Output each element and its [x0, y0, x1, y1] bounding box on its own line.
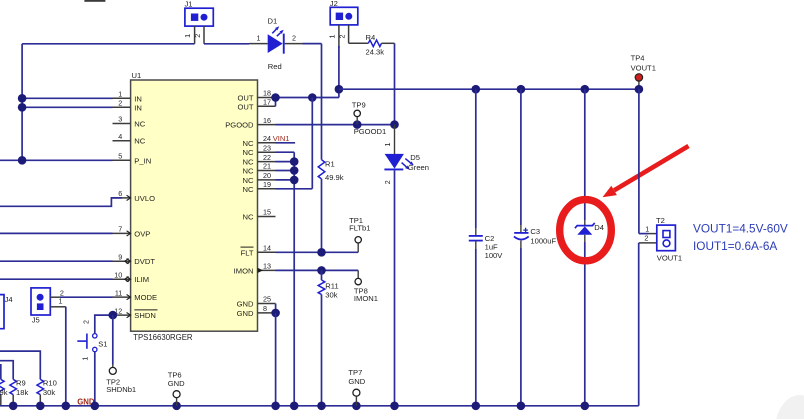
diode D4 TVS: [575, 220, 604, 242]
wire NC pin 20: [276, 179, 295, 181]
node rail TP6: [172, 402, 181, 411]
resistor R9 18k: [10, 379, 29, 397]
node rail NC bus: [290, 402, 299, 411]
wire NC pin 21: [276, 170, 295, 172]
wire pin 19 horizontal: [276, 188, 313, 190]
svg-text:8: 8: [263, 304, 267, 313]
U1 pin 4 NC: [113, 132, 146, 146]
svg-text:15: 15: [263, 208, 271, 217]
node rail S1: [91, 402, 100, 411]
wire P_IN from left edge: [0, 159, 113, 161]
wire OUT to jog: [276, 97, 339, 99]
U1 pin 12 SHDN: [113, 306, 158, 320]
svg-text:NC: NC: [134, 120, 145, 129]
switch S1: [77, 320, 107, 361]
svg-text:PGOOD: PGOOD: [225, 121, 254, 130]
wire to R9: [0, 361, 13, 380]
svg-text:TP9: TP9: [352, 101, 366, 110]
wire C2 bottom lead: [475, 249, 477, 406]
wire C3 bottom lead: [520, 248, 522, 406]
svg-text:9k: 9k: [0, 388, 8, 397]
svg-text:IOUT1=0.6A-6A: IOUT1=0.6A-6A: [693, 239, 777, 253]
svg-text:OVP: OVP: [134, 229, 150, 238]
svg-text:DVDT: DVDT: [134, 257, 155, 266]
wire NC pin 23 to bus: [276, 151, 295, 153]
wire R4 to D5 column: [382, 42, 395, 44]
svg-text:NC: NC: [134, 137, 145, 146]
wire VIN top to J1 pin 1: [22, 43, 195, 45]
test point TP4 VOUT1: [631, 53, 656, 89]
svg-text:2: 2: [193, 34, 202, 38]
svg-text:4: 4: [118, 132, 122, 141]
wire OVP from left edge: [0, 232, 113, 234]
svg-text:P_IN: P_IN: [134, 156, 151, 165]
svg-text:VIN1: VIN1: [273, 134, 290, 143]
wire TP2 riser: [112, 315, 114, 364]
wire C2 top lead: [475, 89, 477, 228]
resistor R10 30k: [37, 379, 57, 397]
svg-text:13: 13: [263, 262, 271, 271]
svg-text:J5: J5: [32, 316, 40, 325]
U1 pin 18 OUT: [237, 89, 275, 103]
U1 pin 1 IN: [113, 90, 142, 104]
svg-text:ILIM: ILIM: [134, 275, 149, 284]
wire R11 top lead: [321, 270, 323, 280]
U1 pin 3 NC: [113, 115, 146, 129]
wire UVLO from left edge: [0, 198, 122, 206]
node rail GND pins: [271, 402, 280, 411]
test point TP7 GND: [348, 368, 365, 406]
wire IN pin 1: [22, 97, 112, 99]
connector J5: [31, 288, 50, 325]
resistor R11 30k: [318, 280, 338, 299]
U1 pin 24 NC: [243, 134, 276, 148]
svg-text:MODE: MODE: [134, 293, 157, 302]
svg-text:GND: GND: [168, 379, 185, 388]
wire D5 cathode to GND rail: [394, 170, 396, 405]
wire NC bus vertical to GND rail: [293, 152, 295, 406]
annotation red arrow: [603, 146, 689, 197]
U1 pin 6 UVLO: [113, 189, 156, 203]
svg-text:1000uF: 1000uF: [530, 236, 556, 245]
node VOUT/C3: [517, 85, 526, 94]
node NC bus pin20: [290, 176, 299, 185]
svg-text:2: 2: [82, 320, 91, 324]
node VIN/IN2 junction: [18, 103, 27, 112]
svg-text:23: 23: [263, 143, 271, 152]
svg-text:TP4: TP4: [631, 53, 645, 62]
node SHDN/TP2: [109, 311, 118, 320]
svg-text:NC: NC: [243, 176, 254, 185]
wire PGOOD net: [276, 124, 395, 126]
node FLT/R1: [317, 248, 326, 257]
svg-text:R9: R9: [16, 379, 26, 388]
svg-text:NC: NC: [243, 185, 254, 194]
svg-text:1: 1: [59, 296, 63, 305]
wire C3 top lead: [520, 89, 522, 225]
svg-text:17: 17: [263, 98, 271, 107]
svg-text:1: 1: [183, 34, 192, 38]
svg-text:OUT: OUT: [237, 102, 253, 111]
U1 pin 8 GND: [237, 304, 276, 318]
U1 pin 10 ILIM: [113, 270, 150, 284]
LED D1 Red: [268, 16, 285, 71]
test point TP2 SHDNb1: [106, 365, 136, 395]
wire D1 cathode down to R1: [321, 44, 323, 160]
wire IN pin 2: [22, 106, 112, 108]
node rail R11: [317, 402, 326, 411]
svg-text:C3: C3: [530, 227, 540, 236]
svg-text:GND: GND: [348, 377, 365, 386]
wire VIN trunk vertical: [21, 44, 23, 161]
wire GND pin 25: [275, 304, 277, 313]
svg-text:D4: D4: [594, 223, 604, 232]
resistor R1 49.9k: [318, 160, 344, 182]
node NC bus pin22: [290, 157, 299, 166]
wire J1.2 to D1 anode: [204, 43, 249, 45]
IC U1 TPS16630RGER: [131, 71, 258, 342]
wire D5 column top: [394, 43, 396, 124]
T2 pin 1 stub: [645, 224, 657, 233]
svg-text:Green: Green: [408, 163, 429, 172]
U1 pin 17 OUT: [237, 98, 275, 112]
J2 pin 2 lead: [338, 25, 349, 43]
svg-text:24: 24: [263, 134, 271, 143]
net VIN1 on pin 24: [273, 134, 295, 143]
node rail R10: [36, 402, 45, 411]
svg-text:1: 1: [257, 34, 261, 43]
svg-text:2: 2: [644, 234, 648, 243]
wire J5 pin 1 down to GND rail: [65, 307, 67, 406]
svg-text:1: 1: [383, 143, 392, 147]
wire OUT drop to pin 19: [311, 98, 313, 189]
svg-text:16: 16: [263, 116, 271, 125]
svg-text:OUT: OUT: [237, 94, 253, 103]
T2 pin 2 stub: [639, 234, 657, 243]
wire D4 top lead: [584, 89, 586, 220]
test point TP6 GND: [168, 371, 185, 406]
node VIN/P_IN junction: [18, 156, 27, 165]
connector J1: [185, 0, 214, 26]
J5 pin 1 wire: [50, 296, 66, 306]
node VIN/IN1 junction: [18, 94, 27, 103]
svg-text:FLTb1: FLTb1: [349, 224, 370, 233]
svg-text:1: 1: [81, 357, 90, 361]
svg-text:GND: GND: [237, 300, 254, 309]
J5 pin 2 wire to MODE: [50, 288, 112, 297]
test point TP1 FLTb1: [349, 216, 370, 252]
wire R1 bottom to FLT net: [321, 179, 323, 252]
svg-text:18: 18: [263, 89, 271, 98]
J1 pin 1 lead: [183, 26, 194, 44]
U1 pin 25 GND: [237, 295, 276, 309]
svg-text:3: 3: [118, 115, 122, 124]
wire NC pin 22: [276, 161, 295, 163]
U1 pin 15 NC: [243, 208, 276, 222]
svg-text:D5: D5: [410, 153, 420, 162]
svg-text:30k: 30k: [325, 290, 337, 299]
wire J2.1 down to VOUT node: [338, 46, 340, 89]
node OUT pins join: [271, 93, 280, 102]
node VOUT/TP4: [635, 85, 644, 94]
svg-text:1: 1: [118, 90, 122, 99]
D1 pin 1 stub: [249, 34, 268, 44]
wire R9 bottom: [12, 395, 14, 406]
svg-text:1: 1: [645, 224, 649, 233]
wire R11 bottom lead: [321, 295, 323, 406]
svg-text:2: 2: [383, 180, 392, 184]
svg-text:IMON1: IMON1: [354, 294, 378, 303]
svg-text:19: 19: [263, 180, 271, 189]
U1 pin 13 IMON: [234, 262, 276, 276]
wire ILIM from left edge: [0, 278, 113, 280]
svg-text:R1: R1: [325, 160, 335, 169]
wire VOUT down to T2 pin 1: [638, 89, 640, 233]
capacitor C3 1000uF polarized: [514, 225, 557, 248]
svg-text:11: 11: [115, 288, 122, 297]
U1 pin 21 NC: [243, 162, 276, 176]
U1 pin 22 NC: [243, 153, 276, 167]
svg-text:Red: Red: [268, 62, 282, 71]
svg-text:18k: 18k: [16, 388, 28, 397]
node rail D5: [390, 402, 399, 411]
U1 pin 19 NC: [243, 180, 276, 194]
U1 pin 20 NC: [243, 171, 276, 185]
svg-text:SHDN: SHDN: [134, 311, 156, 320]
svg-text:25: 25: [263, 295, 271, 304]
connector T2: [656, 216, 682, 262]
svg-text:VOUT1: VOUT1: [631, 64, 656, 73]
top edge dark dash: [84, 0, 105, 2]
test point TP8 IMON1: [354, 270, 378, 303]
wire OUT jog up: [338, 89, 340, 97]
svg-text:NC: NC: [243, 158, 254, 167]
svg-text:IN: IN: [134, 94, 142, 103]
svg-text:NC: NC: [243, 148, 254, 157]
wire D4 bottom lead: [584, 242, 586, 406]
resistor R4 24.3k: [366, 33, 385, 56]
svg-text:R11: R11: [325, 282, 338, 291]
svg-text:GND: GND: [237, 309, 254, 318]
svg-text:NC: NC: [243, 167, 254, 176]
node rail C3: [517, 402, 526, 411]
node GND pins join: [271, 309, 280, 318]
U1 pin 5 P_IN: [113, 152, 152, 166]
wire divider top to R10: [0, 351, 40, 379]
wire GND pins to rail: [275, 313, 277, 406]
wire J2.2 to R4: [349, 42, 369, 44]
svg-text:NC: NC: [243, 213, 254, 222]
connector J4 (partial): [0, 295, 13, 329]
U1 pin 7 OVP: [113, 225, 151, 239]
wire FLT net: [276, 251, 359, 253]
U1 pin 14 FLT: [241, 244, 276, 258]
connector J2: [330, 0, 358, 25]
node rail J5.1: [62, 402, 71, 411]
svg-text:U1: U1: [132, 71, 142, 80]
svg-text:2: 2: [338, 35, 347, 39]
node rail TP7: [352, 402, 361, 411]
svg-text:VOUT1: VOUT1: [657, 253, 682, 262]
node rail R9: [9, 402, 18, 411]
wire R10 bottom: [39, 395, 41, 406]
svg-text:S1: S1: [98, 340, 107, 349]
U1 pin 11 MODE: [113, 288, 158, 302]
decorative corner blob: [775, 395, 804, 419]
U1 pin 23 NC: [243, 143, 276, 157]
wire VOUT rail: [339, 88, 639, 90]
U1 pin 9 DVDT: [113, 252, 156, 266]
node rail D4: [581, 402, 590, 411]
U1 pin 16 PGOOD: [225, 116, 275, 130]
D1 pin 2 stub: [285, 34, 303, 44]
node OUT/pin19 branch: [308, 93, 317, 102]
node VOUT/D4: [581, 85, 590, 94]
wire DVDT from left edge: [0, 260, 113, 262]
svg-text:UVLO: UVLO: [134, 194, 155, 203]
J2 pin 1 lead: [328, 25, 339, 48]
svg-text:SHDNb1: SHDNb1: [106, 385, 136, 394]
svg-text:J4: J4: [5, 295, 13, 304]
svg-text:10: 10: [114, 270, 122, 279]
svg-text:TPS16630RGER: TPS16630RGER: [133, 333, 193, 342]
test point TP9: [352, 101, 366, 125]
svg-text:1: 1: [328, 35, 337, 39]
svg-text:J2: J2: [330, 0, 338, 8]
node VOUT/C2: [472, 85, 481, 94]
svg-text:21: 21: [263, 162, 271, 171]
svg-text:30k: 30k: [43, 388, 55, 397]
wire T2 pin 2 down to GND rail: [638, 243, 640, 406]
svg-text:6: 6: [118, 189, 122, 198]
svg-text:PGOOD1: PGOOD1: [354, 127, 387, 136]
LED D5 Green: [384, 125, 429, 173]
svg-text:9: 9: [118, 252, 122, 261]
svg-text:R10: R10: [43, 379, 57, 388]
wire S1 to GND rail: [94, 352, 96, 406]
svg-text:14: 14: [263, 244, 271, 253]
annotation red circle around D4: [560, 200, 612, 261]
svg-text:VOUT1=4.5V-60V: VOUT1=4.5V-60V: [693, 221, 788, 235]
resistor 49.9k (partial, left edge): [0, 364, 8, 406]
svg-text:7: 7: [118, 225, 122, 234]
wire OUT pin 17 up to pin 18: [275, 98, 277, 107]
J1 pin 2 lead: [193, 26, 204, 44]
wire IMON net: [276, 269, 359, 271]
U1 pin 2 IN: [113, 99, 142, 113]
svg-text:2: 2: [118, 99, 122, 108]
node PGOOD/D5: [390, 120, 399, 129]
svg-text:IN: IN: [134, 103, 142, 112]
svg-text:22: 22: [263, 153, 271, 162]
node IMON/R11: [317, 266, 326, 275]
svg-text:24.3k: 24.3k: [366, 48, 385, 57]
capacitor C2 1uF 100V: [469, 228, 503, 260]
svg-text:J1: J1: [185, 0, 193, 9]
svg-text:2: 2: [292, 34, 296, 43]
svg-text:FLT: FLT: [241, 248, 254, 257]
node rail C2: [472, 402, 481, 411]
wire SHDN to S1: [95, 315, 113, 333]
svg-text:R4: R4: [366, 33, 376, 42]
svg-text:IMON: IMON: [234, 266, 254, 275]
svg-text:20: 20: [263, 171, 271, 180]
svg-text:49.9k: 49.9k: [325, 173, 344, 182]
wire D1 cathode to R1 column: [303, 43, 322, 45]
svg-text:100V: 100V: [485, 251, 504, 260]
svg-text:D1: D1: [268, 16, 278, 25]
svg-text:NC: NC: [243, 139, 254, 148]
svg-text:5: 5: [118, 152, 122, 161]
svg-text:T2: T2: [656, 216, 665, 225]
node PGOOD/TP9: [353, 120, 362, 129]
svg-text:TP7: TP7: [348, 368, 362, 377]
wire GND rail: [0, 405, 639, 407]
node NC bus pin21: [290, 166, 299, 175]
node VOUT at J2.1: [335, 85, 344, 94]
